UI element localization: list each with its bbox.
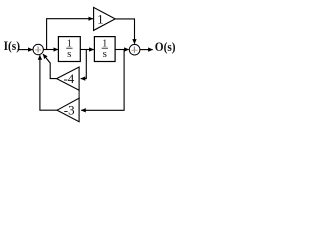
- wire branch down to amp A3: [81, 50, 124, 111]
- svg-text:s: s: [67, 48, 71, 60]
- amp A1 gain 1: [94, 7, 116, 30]
- svg-text:I(s): I(s): [4, 38, 20, 53]
- svg-text:O(s): O(s): [155, 39, 176, 54]
- wire A3 to S1: [40, 55, 57, 110]
- summing junction S1: [33, 44, 43, 54]
- wire G2 to S2: [115, 49, 129, 51]
- svg-text:s: s: [103, 48, 107, 60]
- wire S1 to G1: [43, 49, 58, 51]
- integrator block G1: [58, 37, 80, 62]
- svg-text:-3: -3: [64, 102, 75, 117]
- summing junction S2: [129, 44, 140, 55]
- amp A3 gain -3: [57, 98, 79, 122]
- svg-text:1: 1: [97, 11, 104, 26]
- wire A2 to S1: [43, 54, 57, 79]
- wire A1 to S2: [115, 19, 134, 44]
- value 1/s of G1: [66, 39, 72, 60]
- integrator block G2: [94, 37, 115, 62]
- svg-text:-4: -4: [63, 71, 74, 86]
- amp A2 gain -4: [57, 67, 80, 90]
- value 1/s of G2: [102, 39, 108, 60]
- wire branch up to amp A1: [47, 19, 93, 50]
- wire I(s) to S1: [18, 49, 33, 51]
- wire G1 to G2: [80, 49, 93, 51]
- wire base link A2-A3: [78, 90, 80, 100]
- wire branch down to amp A2: [81, 50, 87, 79]
- wire S2 to O(s): [140, 49, 153, 51]
